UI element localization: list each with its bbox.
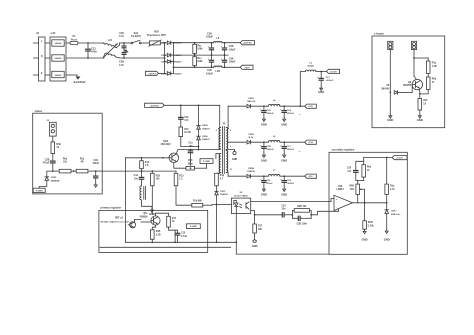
svg-text:8: 8: [230, 130, 231, 132]
svg-text:primary regulator: primary regulator: [101, 207, 122, 210]
svg-text:CR07: CR07: [220, 191, 226, 193]
svg-text:R0B 10k: R0B 10k: [297, 206, 307, 208]
svg-text:GND: GND: [384, 238, 390, 242]
svg-text:MC3041 / BA100 received A]: MC3041 / BA100 received A]: [101, 221, 129, 224]
svg-text:1k 5W: 1k 5W: [184, 132, 191, 134]
svg-text:-15V: -15V: [308, 176, 313, 178]
svg-text:9: 9: [230, 146, 231, 148]
svg-text:100k: 100k: [197, 60, 203, 63]
svg-text:C1N: C1N: [93, 160, 98, 162]
svg-text:R1a: R1a: [432, 63, 437, 65]
svg-text:100uF: 100uF: [206, 72, 213, 75]
svg-text:GND: GND: [318, 90, 324, 94]
svg-text:+C12V: +C12V: [396, 158, 403, 160]
svg-text:+160V: +160V: [244, 67, 251, 69]
svg-text:GBU-08: GBU-08: [247, 101, 256, 103]
svg-text:secondary regulator: secondary regulator: [332, 149, 355, 152]
svg-text:1.0B: 1.0B: [432, 66, 437, 68]
svg-text:F-GND: F-GND: [36, 190, 43, 192]
svg-text:R18: R18: [188, 160, 193, 162]
svg-text:36 m: 36 m: [188, 164, 193, 166]
svg-text:C1d: C1d: [134, 175, 139, 177]
svg-text:R0d: R0d: [432, 79, 437, 81]
svg-text:C3B: C3B: [229, 58, 234, 60]
svg-text:ZM4B2B: ZM4B2B: [51, 179, 60, 182]
svg-text:1N4007: 1N4007: [202, 128, 210, 131]
svg-text:Thermistor, NTC: Thermistor, NTC: [147, 34, 167, 37]
svg-text:x heater: x heater: [374, 32, 384, 36]
svg-text:14GAG: 14GAG: [54, 42, 61, 45]
svg-text:2SC4242: 2SC4242: [161, 143, 172, 146]
svg-text:14GAG: 14GAG: [54, 57, 61, 60]
svg-text:5: 5: [216, 130, 217, 132]
svg-text:R1q: R1q: [390, 186, 395, 188]
svg-text:C16: C16: [184, 117, 189, 119]
svg-text:GND: GND: [281, 159, 287, 163]
svg-text:J4: J4: [36, 31, 39, 35]
svg-text:3.2B: 3.2B: [156, 235, 161, 237]
svg-text:R12: R12: [423, 100, 428, 102]
svg-text:2N3055: 2N3055: [403, 85, 412, 87]
svg-text:CR17: CR17: [391, 211, 397, 213]
svg-text:+320VDC: +320VDC: [150, 105, 160, 107]
svg-text:100k: 100k: [197, 48, 203, 51]
svg-text:+18-36V: +18-36V: [329, 71, 337, 73]
svg-text:BZB 6.2v: BZB 6.2v: [391, 214, 401, 216]
svg-text:GND: GND: [281, 123, 287, 127]
svg-text:CR24: CR24: [161, 72, 167, 75]
svg-text:F-GND: F-GND: [203, 161, 210, 163]
svg-text:C1A: C1A: [287, 109, 292, 112]
svg-text:R1b 680: R1b 680: [193, 200, 203, 202]
svg-text:EarthPwR: EarthPwR: [74, 81, 86, 84]
svg-text:CR05: CR05: [248, 98, 254, 100]
svg-text:CR22: CR22: [161, 55, 167, 57]
svg-text:470n: 470n: [91, 50, 97, 54]
svg-text:R1d: R1d: [145, 162, 150, 164]
svg-text:470uF: 470uF: [267, 182, 274, 185]
svg-text:1N4935: 1N4935: [220, 193, 228, 196]
svg-text:u12: u12: [51, 31, 56, 35]
svg-text:R1B: R1B: [156, 231, 161, 233]
svg-text:1.B: 1.B: [145, 165, 149, 167]
svg-text:100uF: 100uF: [206, 36, 213, 39]
svg-text:4.7uF: 4.7uF: [181, 235, 188, 238]
svg-text:GND: GND: [232, 158, 238, 161]
svg-text:R1B: R1B: [156, 175, 161, 177]
svg-text:L21: L21: [108, 39, 113, 42]
svg-text:4.7n: 4.7n: [119, 64, 124, 67]
svg-text:10n: 10n: [134, 179, 139, 181]
svg-text:C1B: C1B: [267, 146, 272, 148]
svg-text:2200uF: 2200uF: [287, 113, 295, 115]
svg-text:REF u2: REF u2: [115, 218, 124, 220]
svg-text:L1B: L1B: [216, 70, 221, 73]
svg-text:R0N: R0N: [368, 222, 373, 224]
svg-text:CR20: CR20: [51, 177, 57, 179]
svg-text:GND: GND: [261, 123, 267, 127]
svg-text:+12V: +12V: [308, 106, 314, 108]
svg-text:1N4007: 1N4007: [174, 72, 182, 75]
svg-text:GND: GND: [252, 244, 258, 248]
svg-text:-: -: [336, 207, 337, 210]
svg-text:GND: GND: [261, 193, 267, 197]
svg-text:LM324: LM324: [336, 188, 344, 191]
svg-text:C3B: C3B: [45, 159, 50, 161]
svg-text:Fuse: Fuse: [71, 38, 78, 42]
svg-text:10b: 10b: [63, 162, 68, 164]
svg-text:470nF: 470nF: [43, 162, 50, 165]
svg-text:GND: GND: [417, 118, 423, 122]
svg-text:14n: 14n: [347, 170, 352, 173]
svg-text:+500uF: +500uF: [326, 80, 334, 82]
svg-text:100uF: 100uF: [92, 163, 99, 165]
svg-text:CR08: CR08: [202, 125, 208, 127]
svg-text:1000uF: 1000uF: [287, 183, 295, 185]
svg-text:status: status: [35, 110, 43, 113]
svg-text:2200uF: 2200uF: [267, 113, 275, 115]
svg-text:GND: GND: [387, 118, 393, 122]
svg-text:~: ~: [299, 113, 301, 117]
svg-text:2N4245: 2N4245: [381, 88, 390, 91]
svg-text:1N4007: 1N4007: [174, 42, 182, 45]
svg-text:(K13d / 4N35: (K13d / 4N35: [234, 194, 248, 197]
svg-text:14GAG: 14GAG: [54, 74, 61, 77]
svg-text:R0B: R0B: [349, 186, 354, 188]
svg-text:4.7n: 4.7n: [119, 35, 124, 38]
svg-text:C16: C16: [281, 205, 286, 207]
svg-text:1.20k: 1.20k: [368, 226, 374, 228]
svg-text:R1q: R1q: [220, 175, 225, 177]
svg-text:+160VDC: +160VDC: [147, 73, 157, 75]
svg-text:2200uF: 2200uF: [267, 149, 275, 151]
svg-text:C1n: C1n: [188, 143, 193, 145]
svg-text:C2B: C2B: [229, 46, 234, 48]
svg-text:100uF: 100uF: [229, 62, 236, 64]
svg-text:F-GND: F-GND: [190, 226, 197, 228]
svg-text:C1N: C1N: [287, 180, 292, 182]
svg-text:2N3906: 2N3906: [139, 216, 148, 218]
svg-text:R12: R12: [184, 129, 189, 131]
svg-text:R2a: R2a: [80, 158, 85, 160]
svg-text:C15: C15: [181, 233, 186, 235]
svg-text:1N4007: 1N4007: [174, 61, 182, 64]
svg-text:GND: GND: [261, 159, 267, 163]
svg-text:4.7k: 4.7k: [390, 188, 395, 191]
svg-text:B.3b: B.3b: [249, 137, 254, 139]
svg-text:R0a: R0a: [63, 158, 68, 160]
svg-text:R17: R17: [258, 226, 263, 228]
svg-text:CR06: CR06: [248, 134, 254, 136]
svg-text:CR23: CR23: [161, 62, 167, 64]
svg-text:~: ~: [299, 150, 301, 154]
svg-text:10n: 10n: [282, 209, 287, 211]
svg-text:R13: R13: [179, 175, 184, 177]
svg-text:1A: 1A: [423, 103, 426, 106]
svg-text:+250VDC: +250VDC: [243, 43, 253, 45]
svg-text:C2B 100n: C2B 100n: [297, 223, 308, 225]
svg-text:CR0B: CR0B: [248, 168, 254, 170]
svg-text:(4342): (4342): [308, 65, 315, 68]
svg-text:Pa.5(P2): Pa.5(P2): [131, 35, 141, 38]
svg-text:U1B: U1B: [338, 186, 343, 188]
svg-text:GND: GND: [281, 193, 287, 197]
svg-text:C1N: C1N: [267, 110, 272, 112]
svg-text:100uF: 100uF: [229, 49, 236, 51]
svg-text:R0a: R0a: [367, 167, 372, 169]
svg-text:C20: C20: [347, 168, 352, 170]
svg-text:GND: GND: [362, 238, 368, 242]
svg-text:1N4007: 1N4007: [174, 54, 182, 57]
svg-text:11: 11: [230, 169, 232, 171]
svg-text:2200uF: 2200uF: [287, 149, 295, 151]
svg-text:1N4936: 1N4936: [247, 170, 255, 173]
svg-text:CR08: CR08: [202, 136, 208, 138]
svg-text:4.7n: 4.7n: [184, 119, 189, 122]
svg-text:R17: R17: [172, 218, 177, 220]
svg-text:Q11: Q11: [143, 213, 148, 215]
svg-text:1N4007: 1N4007: [202, 138, 210, 141]
svg-text:4B: 4B: [81, 161, 84, 164]
svg-text:+15d: +15d: [308, 142, 314, 144]
